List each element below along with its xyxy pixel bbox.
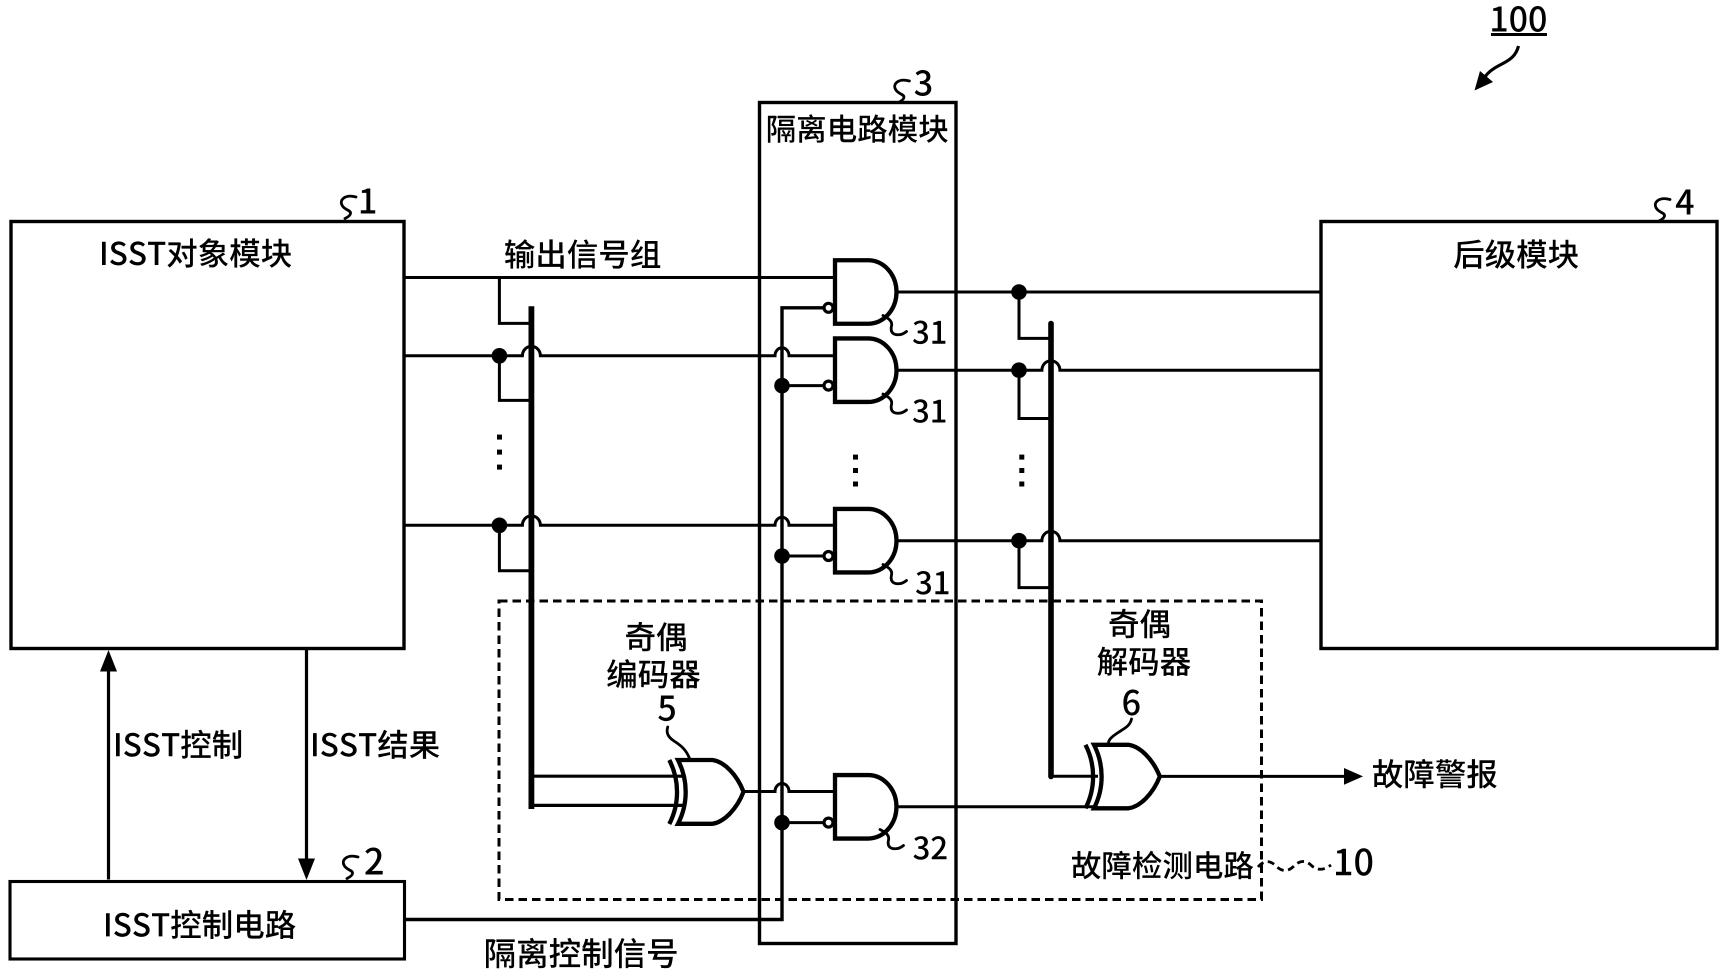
ISST result arrow line down bbox=[305, 650, 308, 862]
label 10 bbox=[1336, 848, 1372, 876]
tap stub o3 to right bus bbox=[1019, 541, 1049, 588]
module box 2 ISST control circuit bbox=[10, 882, 405, 960]
label 32 bbox=[914, 836, 947, 860]
isolation circuit module box 3 bbox=[760, 103, 957, 944]
isolation control line from box2 through box3 to gate 31a bubble bbox=[405, 308, 825, 920]
net label ISST结果 bbox=[313, 730, 439, 759]
gate 32 output wire to decoder bbox=[897, 805, 1097, 808]
gate 31b inverting bubble bbox=[824, 381, 833, 390]
junction dot on o3 bbox=[1011, 533, 1027, 549]
control stub to gate 31c bubble bbox=[782, 555, 824, 558]
reference squiggle for label 3 bbox=[895, 80, 910, 102]
box1 text ISST对象模块 bbox=[102, 238, 291, 267]
vertical ellipsis left tap column bbox=[497, 435, 502, 470]
ISST control arrow line up bbox=[107, 668, 110, 880]
parity gate 32 AND body bbox=[835, 775, 896, 839]
tap stub from w2 down to left bus bbox=[499, 356, 529, 401]
gate 31c inverting bubble bbox=[824, 552, 833, 561]
arrow from 100 bbox=[1485, 46, 1519, 78]
junction dot on o2 bbox=[1011, 362, 1027, 378]
output wire o2 gate 31b to box4 with hop bbox=[897, 361, 1322, 371]
figure number 100 bbox=[1492, 6, 1546, 32]
label 4 bbox=[1676, 190, 1694, 215]
label 31a bbox=[913, 321, 945, 345]
junction dot control line at gate 31c stub bbox=[774, 548, 790, 564]
label 31b bbox=[913, 399, 945, 423]
parity decoder XOR body U6 bbox=[1094, 745, 1160, 809]
tap stub from w1 down to left bus bbox=[499, 278, 529, 324]
net label 隔离控制信号 isolation control signal bbox=[486, 938, 677, 969]
gate 31a inverting bubble bbox=[824, 303, 833, 312]
underline of 100 bbox=[1491, 33, 1547, 36]
control stub to gate 31b bubble bbox=[782, 384, 824, 387]
label 1 bbox=[361, 189, 375, 214]
squiggle to label 32 bbox=[880, 830, 904, 849]
label 故障检测电路 fault detection circuit bbox=[1072, 851, 1253, 880]
isolation gate 31b AND body bbox=[835, 338, 897, 402]
junction dot on o1 bbox=[1011, 284, 1027, 300]
wire w2 signal 2 from box1 to gate 31b with hops bbox=[404, 346, 835, 356]
decoder XOR extra input arc bbox=[1086, 745, 1094, 809]
junction dot control line at gate 31b stub bbox=[774, 378, 790, 394]
encoder label line2 编码器 bbox=[607, 659, 700, 688]
module box 1 ISST target module bbox=[11, 222, 404, 649]
label 31c bbox=[916, 571, 948, 595]
tap stub o1 to right bus bbox=[1019, 292, 1049, 338]
box3 text 隔离电路模块 bbox=[768, 114, 948, 143]
fault detection circuit dashed box 10 bbox=[499, 601, 1262, 900]
tap stub from w3 down to left bus bbox=[499, 525, 529, 570]
control stub to gate 32 bubble bbox=[782, 821, 824, 824]
encoder output wire to gate 32 with hop bbox=[744, 784, 836, 792]
wavy dashed connector to label 10 bbox=[1258, 862, 1331, 871]
tap stub o2 to right bus bbox=[1019, 370, 1049, 418]
decoder label line2 解码器 bbox=[1098, 647, 1191, 676]
net label ISST控制 bbox=[116, 730, 241, 759]
wire w1 signal 1 from box1 to gate 31a bbox=[404, 276, 835, 279]
junction dot control line at gate 32 stub bbox=[774, 815, 790, 831]
reference squiggle for label 2 bbox=[343, 856, 358, 878]
output wire o3 gate 31c to box4 with hop bbox=[897, 531, 1322, 541]
box2 text ISST控制电路 bbox=[106, 910, 296, 939]
left vertical bus line to parity encoder bbox=[529, 306, 535, 809]
decoder label line1 奇偶 bbox=[1110, 609, 1170, 638]
wire w3 signal n from box1 to gate 31c with hops bbox=[404, 516, 835, 526]
box4 text 后级模块 bbox=[1454, 239, 1578, 268]
junction dot on w2 at tap bbox=[492, 348, 508, 364]
module box 4 subsequent-stage module bbox=[1321, 222, 1717, 649]
vertical ellipsis right tap column bbox=[1019, 455, 1024, 487]
squiggle from 6 to decoder bbox=[1108, 719, 1131, 744]
fault alarm output wire with arrowhead bbox=[1160, 775, 1345, 778]
label 2 bbox=[365, 848, 382, 875]
encoder label line1 奇偶 bbox=[626, 622, 686, 651]
net label 故障警报 fault alarm bbox=[1373, 759, 1497, 789]
squiggle from 5 to encoder bbox=[667, 727, 689, 759]
isolation gate 31c AND body bbox=[835, 509, 897, 573]
decoder input line from bus bbox=[1051, 775, 1098, 778]
encoder input bus lines bbox=[529, 776, 686, 805]
net label 输出信号组 output signal group bbox=[505, 239, 660, 268]
parity encoder XOR body U5 bbox=[678, 760, 744, 824]
right vertical bus line to parity decoder bbox=[1048, 324, 1054, 777]
reference squiggle for label 1 bbox=[341, 196, 356, 218]
isolation gate 31a AND body bbox=[835, 260, 897, 324]
label 3 bbox=[915, 70, 932, 96]
label 5 bbox=[658, 696, 675, 722]
output wire o1 gate 31a to box4 bbox=[897, 291, 1322, 294]
label 6 bbox=[1123, 690, 1139, 716]
squiggle to label 31a bbox=[883, 316, 907, 335]
squiggle to label 31b bbox=[883, 394, 907, 413]
gate 32 inverting bubble bbox=[824, 818, 833, 827]
reference squiggle for label 4 bbox=[1655, 199, 1670, 221]
encoder XOR extra input arc bbox=[669, 760, 677, 824]
junction dot on w3 at tap bbox=[492, 518, 508, 534]
squiggle to label 31c bbox=[883, 565, 907, 584]
vertical ellipsis gate column bbox=[853, 455, 858, 487]
